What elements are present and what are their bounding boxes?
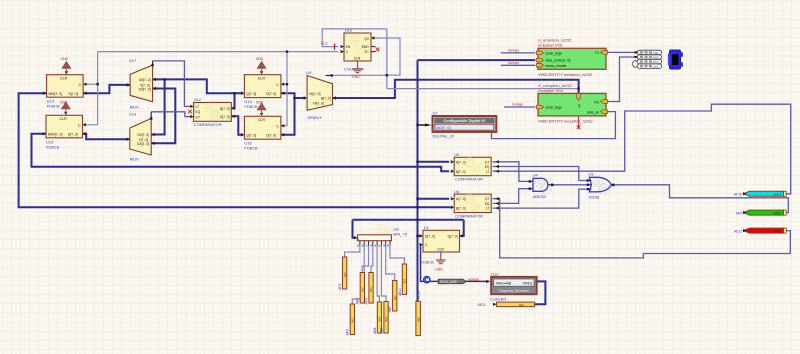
- svg-text:E: E: [356, 238, 360, 240]
- svg-text:FD8CB: FD8CB: [244, 104, 257, 109]
- svg-text:D[7..0]: D[7..0]: [68, 132, 78, 136]
- svg-text:RXD: RXD: [653, 56, 659, 60]
- wire decoder pin2 to resistor RB: [352, 246, 364, 305]
- svg-text:MUX: MUX: [130, 156, 139, 161]
- svg-text:CLR: CLR: [60, 77, 68, 81]
- svg-text:U12: U12: [194, 97, 202, 102]
- svg-text:D[7..0]: D[7..0]: [69, 92, 79, 96]
- svg-text:AB6: AB6: [356, 298, 360, 305]
- wire clock net vertical left: [83, 52, 98, 125]
- svg-text:YA[7..0]: YA[7..0]: [313, 101, 325, 105]
- resistor RF: [384, 302, 388, 334]
- svg-text:GND: GND: [61, 57, 69, 61]
- wire RX to connector: [607, 57, 637, 102]
- svg-text:AB10: AB10: [398, 288, 402, 296]
- resistor RH: [402, 264, 406, 295]
- svg-text:TC: TC: [364, 50, 369, 54]
- svg-text:MUX: MUX: [130, 104, 139, 109]
- wire U17 sel to comparator U12 LT: [153, 61, 191, 107]
- svg-text:AE21: AE21: [478, 303, 486, 307]
- svg-text:EQ: EQ: [485, 165, 490, 169]
- svg-text:VA[7..0]: VA[7..0]: [309, 92, 321, 96]
- svg-text:C: C: [276, 83, 279, 87]
- svg-text:8k2: 8k2: [378, 316, 382, 321]
- svg-text:AB9: AB9: [379, 327, 383, 334]
- LED indicator cyan AF10: [743, 191, 786, 196]
- svg-text:GND: GND: [256, 57, 264, 61]
- VHDL entity reception_rs232: [537, 93, 608, 116]
- svg-text:C: C: [78, 123, 81, 127]
- svg-text:U1: U1: [424, 225, 430, 230]
- svg-text:B[7..0]: B[7..0]: [456, 170, 466, 174]
- resistor RA: [343, 257, 347, 289]
- svg-text:WAIT: WAIT: [774, 230, 782, 234]
- svg-text:clock_fpga: clock_fpga: [546, 52, 562, 56]
- wire U1 Q output to decoder U8 input: [353, 220, 464, 238]
- svg-text:DCLK_M25: DCLK_M25: [440, 280, 457, 284]
- register U1: [420, 230, 463, 252]
- svg-text:EQ: EQ: [485, 202, 490, 206]
- wire U5 GT to AND gate in1: [493, 162, 530, 182]
- svg-text:FD8CB: FD8CB: [47, 103, 60, 108]
- svg-text:GT: GT: [485, 197, 490, 201]
- svg-text:horloge: horloge: [508, 61, 519, 65]
- wire sel net to reception column: [387, 88, 579, 90]
- svg-text:D[7..0]: D[7..0]: [425, 235, 435, 239]
- svg-text:B[7..0]: B[7..0]: [321, 97, 331, 101]
- svg-text:Q[7..0]: Q[7..0]: [448, 235, 458, 239]
- comparator U5: [451, 157, 499, 175]
- svg-text:CLR: CLR: [258, 77, 266, 81]
- gnd below U1: [435, 252, 446, 271]
- svg-text:COMPARATOR: COMPARATOR: [455, 213, 483, 218]
- connector pin nubs: [634, 51, 637, 53]
- wire emission enable stub: [501, 64, 536, 66]
- svg-text:U11: U11: [491, 271, 499, 276]
- mux U17: [127, 61, 156, 102]
- wire U14 D output to demux U9: [281, 93, 306, 98]
- wire decoder pin6 to resistor RF: [381, 246, 386, 302]
- wire decoder pin1 to resistor RA: [345, 246, 360, 258]
- svg-text:8k2: 8k2: [384, 316, 388, 321]
- wire counter Q0 to sel net: [373, 38, 400, 75]
- comparator U12: [188, 103, 235, 122]
- comparator U6: [451, 194, 499, 212]
- svg-text:C: C: [79, 83, 82, 87]
- resistor RD: [369, 273, 373, 304]
- wire U6 GT to red LED: [493, 199, 791, 258]
- counter U10: [341, 33, 380, 65]
- svg-text:AF9: AF9: [736, 211, 742, 215]
- oscillator clock icon: [424, 277, 430, 283]
- wire decoder pin8 to resistor RH: [390, 246, 404, 265]
- gnd below counter: [352, 65, 363, 79]
- svg-text:DA[7..0]: DA[7..0]: [139, 88, 151, 92]
- svg-text:COMPARATOR: COMPARATOR: [455, 177, 483, 182]
- wire U13 D output to MUX U17 V input: [83, 85, 130, 93]
- resistor RE: [377, 302, 381, 333]
- wire branch to U1 D input: [418, 235, 422, 237]
- mux U19: [126, 112, 154, 155]
- svg-text:8k2: 8k2: [393, 295, 397, 300]
- svg-text:Frequency Generator: Frequency Generator: [499, 289, 530, 293]
- wire U17 DA output down to U19 DA: [151, 89, 175, 144]
- svg-text:data_emiss[7..0]: data_emiss[7..0]: [546, 59, 571, 63]
- svg-text:GND: GND: [256, 100, 264, 104]
- wire branch to comparator U5 A: [418, 161, 450, 163]
- wire decoder pin7 to resistor RG: [386, 246, 395, 281]
- no-connect marker below reception: [577, 117, 581, 130]
- wire bus B: U15 MAX to comparator U5 B: [32, 134, 450, 171]
- svg-text:clk: clk: [578, 104, 582, 108]
- svg-text:LT: LT: [486, 170, 490, 174]
- svg-text:DIGITAL_IO: DIGITAL_IO: [433, 134, 455, 139]
- wire comparator U12 B pin tap: [231, 93, 234, 108]
- svg-text:reception.Vhd: reception.Vhd: [538, 88, 563, 93]
- svg-text:GND: GND: [352, 75, 360, 79]
- svg-text:A[7..0]: A[7..0]: [456, 160, 466, 164]
- svg-text:CLR: CLR: [437, 248, 444, 252]
- wire decoder pin5 to resistor RE: [377, 246, 379, 303]
- svg-text:AE26: AE26: [416, 291, 420, 299]
- wire clock net horizontal to counter: [98, 51, 339, 53]
- wire U16 D output joining demux net: [281, 98, 295, 135]
- svg-text:U17: U17: [129, 58, 137, 63]
- svg-text:U6: U6: [454, 189, 460, 194]
- wire frequency generator output to resistor: [535, 281, 546, 304]
- register U15: [43, 112, 86, 138]
- wire U19 sel to comparator U12 GT: [151, 112, 190, 117]
- svg-text:CLR: CLR: [354, 57, 361, 61]
- svg-text:WAIT: WAIT: [774, 193, 782, 197]
- svg-text:U19: U19: [129, 111, 137, 116]
- svg-text:8k2: 8k2: [369, 287, 373, 292]
- wire U6 LT to OR gate in3: [493, 189, 588, 208]
- svg-text:U7: U7: [433, 111, 439, 116]
- svg-text:END: END: [362, 45, 370, 49]
- DB9 serial connector: [668, 50, 683, 69]
- svg-text:CLAGEN: CLAGEN: [490, 297, 507, 302]
- svg-text:emission.Vhd: emission.Vhd: [538, 42, 562, 47]
- svg-text:FD8CB: FD8CB: [46, 144, 59, 149]
- LED indicator green AF9: [743, 210, 786, 215]
- svg-text:COMPARATOR: COMPARATOR: [194, 122, 222, 127]
- svg-text:LT: LT: [486, 207, 490, 211]
- svg-text:RX: RX: [594, 100, 599, 104]
- svg-text:BIN_7S: BIN_7S: [394, 231, 408, 236]
- svg-text:AF6: AF6: [364, 298, 368, 304]
- VHDL entity emission_rs232: [537, 48, 608, 69]
- demux U9: [304, 74, 336, 110]
- svg-text:D[7..0]: D[7..0]: [266, 133, 276, 137]
- svg-text:DEMUX: DEMUX: [308, 115, 323, 120]
- wire data_ok to digital IO: [492, 112, 616, 139]
- svg-text:U10: U10: [345, 28, 353, 33]
- svg-text:A[7..0]: A[7..0]: [456, 197, 466, 201]
- digital IO box U7: [425, 116, 497, 132]
- svg-text:8k2: 8k2: [519, 303, 524, 307]
- gnd arrow above U13: [61, 57, 71, 74]
- frequency generator U11: [491, 277, 537, 295]
- svg-text:WAIT: WAIT: [774, 212, 782, 216]
- svg-text:horloge: horloge: [468, 278, 479, 282]
- wire demux U9 B output to reception top pin: [333, 80, 579, 98]
- wire U5 EQ to OR gate in1: [493, 167, 588, 181]
- wire demux sel / VCC loop: [322, 29, 387, 89]
- gnd arrow above U16: [256, 100, 266, 115]
- svg-text:A[7..0]: A[7..0]: [220, 115, 230, 119]
- svg-text:FD8CB: FD8CB: [244, 146, 257, 151]
- svg-text:AE11: AE11: [734, 229, 742, 233]
- wire branch to comparator U6 A: [418, 198, 450, 200]
- svg-text:Q[7..0]: Q[7..0]: [246, 133, 256, 137]
- svg-text:AF4: AF4: [338, 284, 342, 290]
- svg-text:CLR: CLR: [60, 117, 68, 121]
- svg-text:B[7..0]: B[7..0]: [456, 207, 466, 211]
- svg-text:VHDLENTITY reception_rs232: VHDLENTITY reception_rs232: [538, 118, 593, 123]
- rs232 connector block: [632, 50, 662, 68]
- wire U15 D output to MUX U19 V input: [83, 134, 130, 139]
- and gate U4: [529, 177, 554, 194]
- svg-text:U5: U5: [454, 152, 460, 157]
- resistor RB: [350, 304, 354, 335]
- svg-text:GT: GT: [195, 115, 200, 119]
- wire branch to digital IO input: [418, 124, 425, 126]
- svg-text:EN: EN: [346, 45, 351, 49]
- svg-text:emiss_enable: emiss_enable: [546, 64, 567, 68]
- svg-text:D[7..0]: D[7..0]: [266, 92, 276, 96]
- svg-text:CLR: CLR: [258, 118, 266, 122]
- oscillator tag DCLK_M25: [438, 279, 466, 284]
- resistor RC: [360, 273, 364, 304]
- svg-text:VHDLENTITY emission_rs232: VHDLENTITY emission_rs232: [538, 72, 593, 77]
- wire U6 EQ to AND gate in2: [493, 189, 530, 204]
- svg-text:TXD: TXD: [653, 51, 658, 55]
- svg-text:FREQ: FREQ: [523, 281, 533, 285]
- svg-text:8k2: 8k2: [361, 287, 365, 292]
- wire U5 LT to cyan LED: [493, 104, 791, 194]
- svg-text:horloge: horloge: [508, 49, 519, 53]
- svg-text:LT: LT: [195, 105, 199, 109]
- svg-text:AND2B: AND2B: [533, 194, 547, 199]
- svg-text:MIN[7..0]: MIN[7..0]: [49, 92, 62, 96]
- svg-text:Q0: Q0: [364, 37, 369, 41]
- vcc terminal at counter: [321, 42, 335, 50]
- svg-text:OR3B: OR3B: [588, 194, 599, 199]
- resistor RG: [393, 281, 397, 312]
- gnd arrow above U15: [60, 100, 70, 114]
- register U13: [43, 71, 86, 97]
- svg-text:U3: U3: [588, 172, 594, 177]
- svg-text:VCC: VCC: [321, 42, 329, 46]
- 7-segment decoder U8: [354, 225, 393, 247]
- svg-text:RTS: RTS: [653, 60, 658, 64]
- wire oscillator to frequency generator: [421, 245, 490, 282]
- wire U17 D0 net to U14 and down to U19: [151, 79, 243, 134]
- wire comparator U12 A to U16: [231, 116, 243, 135]
- svg-text:FD8CB: FD8CB: [421, 259, 434, 264]
- or gate U3: [587, 177, 615, 194]
- svg-text:GND: GND: [435, 267, 443, 271]
- resistor R horizontal: [497, 302, 535, 307]
- wire TX to connector: [607, 51, 637, 53]
- wire reception clock stub: [504, 106, 535, 108]
- svg-text:AF5: AF5: [346, 329, 350, 335]
- svg-text:GND: GND: [60, 100, 68, 104]
- svg-text:clock_fpga: clock_fpga: [546, 106, 562, 110]
- wire decoder pin4 to resistor RD: [371, 246, 373, 273]
- svg-text:8k2: 8k2: [351, 318, 355, 323]
- register U16: [241, 113, 284, 139]
- wire OR output to green LED: [613, 185, 788, 213]
- svg-text:horloge: horloge: [512, 103, 523, 107]
- svg-text:C: C: [425, 243, 428, 247]
- svg-text:MAX[7..0]: MAX[7..0]: [48, 132, 63, 136]
- svg-text:B[7..0]: B[7..0]: [220, 107, 230, 111]
- svg-text:U9: U9: [306, 70, 312, 75]
- resistor RI on bus: [416, 301, 421, 335]
- svg-text:data_ok: data_ok: [587, 110, 599, 114]
- svg-text:8k2: 8k2: [416, 317, 420, 322]
- svg-text:D0[7..0]: D0[7..0]: [139, 78, 151, 82]
- svg-text:AD[7..0]: AD[7..0]: [437, 125, 451, 130]
- svg-text:Q[7..0]: Q[7..0]: [246, 92, 256, 96]
- svg-text:AB8: AB8: [373, 327, 377, 334]
- svg-text:U4: U4: [533, 172, 539, 177]
- svg-text:GT: GT: [485, 160, 490, 164]
- svg-text:7MHz•4dB: 7MHz•4dB: [495, 281, 512, 285]
- LED indicator red AE11: [743, 228, 786, 233]
- svg-text:Configurable Digital IO: Configurable Digital IO: [443, 118, 485, 123]
- wire emission clock_fpga stub: [501, 52, 536, 54]
- wire decoder pin3 to resistor RC: [362, 246, 368, 273]
- svg-text:AF10: AF10: [734, 193, 742, 197]
- gnd arrow above U14: [256, 57, 266, 74]
- wire AND output to OR in2: [554, 184, 588, 186]
- svg-text:8k2: 8k2: [343, 272, 347, 277]
- svg-text:AB7: AB7: [388, 306, 392, 313]
- wire vertical data bus to emission data pin: [418, 60, 536, 301]
- register U14: [241, 71, 284, 97]
- svg-text:EQ: EQ: [195, 110, 200, 114]
- wire clock taps to U14 U16: [281, 52, 287, 126]
- wire bus A: U13 MIN to comparator U6 B: [19, 93, 451, 207]
- svg-text:CTS: CTS: [653, 65, 658, 69]
- svg-text:8k2: 8k2: [403, 278, 407, 283]
- svg-text:D0[7..0]: D0[7..0]: [138, 133, 150, 137]
- svg-text:DA[7..0]: DA[7..0]: [137, 142, 149, 146]
- svg-text:C: C: [276, 124, 279, 128]
